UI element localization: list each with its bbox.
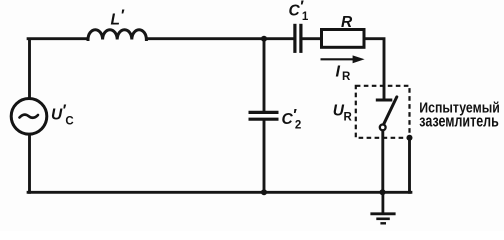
switch contact bar: [376, 99, 393, 102]
svg-text:C′2: C′2: [282, 107, 302, 132]
switch hinge circle: [380, 125, 386, 131]
node junction C2/top wire: [261, 36, 267, 42]
wire bottom: [28, 191, 411, 194]
wire dashed-box right corner down to bottom wire: [408, 139, 411, 193]
svg-text:R: R: [342, 71, 351, 83]
switch blade: [384, 97, 397, 124]
svg-text:U′C: U′C: [51, 102, 74, 127]
wire C2 branch lower: [263, 121, 266, 192]
wire top segment C1 to R: [303, 37, 322, 40]
resistor R: [322, 30, 365, 48]
svg-text:L′: L′: [111, 8, 125, 29]
svg-text:C′1: C′1: [289, 0, 309, 23]
wire top segment inductor to C1: [146, 37, 293, 40]
wire left vertical (source bottom to bottom wire): [28, 135, 31, 192]
wire top segment to inductor: [28, 37, 88, 40]
ground: [370, 192, 395, 223]
inductor L': [88, 30, 146, 40]
wire left vertical (source to top wire): [28, 40, 31, 97]
svg-text:R: R: [341, 14, 353, 31]
svg-text:R: R: [344, 111, 353, 123]
node junction C2/bottom wire: [261, 189, 267, 195]
dashed box tested earth electrode: [356, 86, 410, 138]
svg-text:заземлитель: заземлитель: [419, 112, 499, 130]
wire R to top-right corner and down: [364, 39, 384, 99]
svg-text:I: I: [336, 64, 341, 81]
current arrow IR: [321, 55, 365, 63]
AC source U'C: [11, 99, 47, 135]
node junction ground/bottom wire: [380, 189, 386, 195]
wire switch hinge to bottom wire: [381, 131, 384, 193]
wire C2 branch upper: [263, 40, 266, 111]
capacitor C1: [295, 24, 301, 53]
node junction box bottom-right: [407, 135, 413, 141]
capacitor C2: [249, 112, 279, 119]
